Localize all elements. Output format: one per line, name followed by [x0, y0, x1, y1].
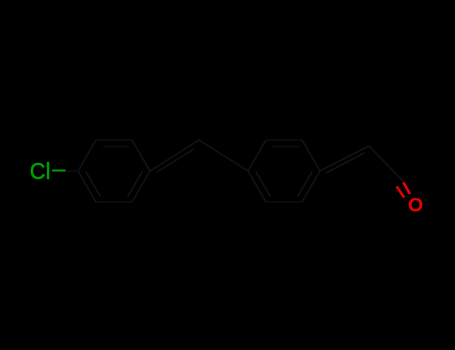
svg-text:O: O [408, 195, 423, 217]
ring 2 inner double bond top [274, 146, 300, 148]
ring 1 edge R-BR [132, 171, 150, 202]
svg-text:Cl: Cl [30, 157, 51, 184]
chain double bond parallel line [326, 153, 364, 173]
chain bond ring2 to apex [320, 146, 369, 171]
ring 2 edge TR-R [302, 140, 320, 171]
ring 1 inner double bond top [104, 146, 130, 148]
ring 2 edge TL-TR (top) [266, 139, 302, 141]
ring 2 edge BL-L [248, 171, 266, 202]
bond Cl-C1 green half [52, 170, 66, 172]
ring 1 edge L-TL [78, 140, 96, 171]
ring 1 edge TL-TR (top) [96, 139, 132, 141]
bridge bond apex to ring2 [199, 140, 248, 171]
ring 2 inner double bond lower-right [298, 172, 312, 196]
ring 1 edge BR-BL (bottom) [96, 201, 132, 203]
C=O double bond line 2 (parallel) [397, 186, 405, 197]
ring 1 edge BL-L [78, 171, 96, 202]
ring 2 edge L-TL [248, 140, 266, 171]
ring 2 edge BR-BL (bottom) [266, 201, 302, 203]
bridge double bond parallel line [157, 149, 194, 172]
ring 1 inner double bond lower-right [128, 172, 142, 196]
bridge bond ring1 to apex [150, 140, 199, 171]
C=O double bond line 1 [403, 182, 410, 194]
chain bond apex to carbonyl carbon [369, 146, 403, 181]
ring 2 inner double bond lower-left [256, 172, 270, 196]
bond C1-Cl dark half [65, 170, 78, 172]
ring 2 edge R-BR [302, 171, 320, 202]
ring 1 edge TR-R [132, 140, 150, 171]
ring 1 inner double bond lower-left [86, 172, 100, 196]
